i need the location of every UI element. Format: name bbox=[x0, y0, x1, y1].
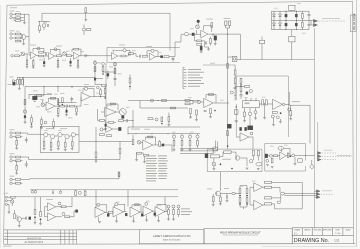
resistor R44 bbox=[109, 122, 114, 124]
ground bbox=[257, 168, 260, 170]
pot VR15 bbox=[137, 141, 141, 145]
capacitor C26 bbox=[76, 108, 78, 112]
label smear bbox=[10, 152, 15, 155]
resistor R36 bbox=[70, 105, 75, 107]
output arrows K6 bbox=[317, 190, 321, 193]
resistor R1 bbox=[16, 13, 21, 15]
wire bbox=[123, 211, 127, 213]
resistor R26 bbox=[301, 13, 303, 18]
capacitor C46 bbox=[25, 140, 28, 141]
dashed out bbox=[321, 193, 335, 195]
dark dot D8 bbox=[246, 195, 248, 197]
transistor TR8 bbox=[17, 217, 22, 222]
pot VR16 bbox=[172, 135, 175, 138]
resistor R34 bbox=[57, 100, 59, 105]
resistor R65 bbox=[272, 112, 277, 114]
wire bbox=[201, 102, 230, 103]
feedback wire bbox=[203, 26, 211, 32]
wire bbox=[12, 179, 15, 183]
connector bracket SK1 bbox=[183, 68, 185, 89]
wire vertical x95 bbox=[94, 60, 96, 85]
pot VR8 bbox=[196, 25, 200, 29]
resistor R23 bbox=[197, 43, 202, 45]
capacitor C15 bbox=[225, 21, 227, 25]
wire bbox=[103, 128, 118, 131]
resistor R76 bbox=[43, 142, 45, 147]
dark dot D5 bbox=[34, 216, 36, 218]
ground bbox=[189, 117, 192, 119]
electrolytic C6 bbox=[70, 61, 72, 63]
ground bbox=[30, 127, 33, 129]
resistor R51 bbox=[173, 140, 175, 145]
pot VR47 bbox=[197, 100, 200, 103]
ground bbox=[57, 116, 60, 118]
resistor R113 bbox=[104, 89, 106, 94]
wire bbox=[95, 84, 101, 86]
electrolytic C8 bbox=[161, 56, 163, 58]
capacitor C58 bbox=[204, 111, 207, 112]
right paper edge bbox=[355, 0, 357, 247]
ground bbox=[173, 150, 176, 152]
transistor TR6 bbox=[65, 135, 69, 139]
op-amp A16 bbox=[113, 207, 124, 217]
arrow K4 bbox=[318, 155, 322, 158]
resistor R69 bbox=[271, 158, 273, 163]
terminal N bbox=[5, 200, 7, 202]
op-amp A19 bbox=[155, 207, 165, 217]
smoothing cap C20 bbox=[295, 23, 297, 26]
svg-text:8.66: 8.66 bbox=[294, 234, 298, 236]
feedback wire bbox=[49, 98, 59, 106]
top rail bbox=[272, 10, 310, 12]
resistor R5 bbox=[16, 37, 21, 39]
wire bus x318 bbox=[317, 122, 319, 152]
resistor R12 bbox=[67, 55, 72, 57]
transformer primary box T1 top bbox=[289, 5, 295, 10]
resistor R112 bbox=[53, 122, 55, 127]
resistor R31 bbox=[24, 100, 26, 105]
resistor R67 bbox=[273, 155, 277, 157]
resistor R93 bbox=[65, 216, 70, 218]
label smears bbox=[33, 90, 38, 93]
resistor R40 bbox=[114, 69, 116, 74]
wire bbox=[195, 36, 205, 47]
capacitor C47 bbox=[16, 165, 18, 170]
jack J9 bbox=[10, 136, 12, 138]
jack J13 bbox=[10, 182, 12, 184]
driver IC block IC1 bbox=[242, 101, 259, 108]
label smear bbox=[222, 158, 231, 161]
dark dot D10 bbox=[246, 203, 248, 205]
ground bbox=[24, 122, 27, 124]
ground bbox=[272, 125, 275, 127]
pot VR40 bbox=[177, 205, 180, 208]
wire bbox=[156, 56, 161, 58]
wire vertical x115 bbox=[114, 62, 116, 86]
capacitor C9 bbox=[172, 59, 175, 60]
resistor R27 bbox=[301, 22, 303, 27]
transistor TR9 bbox=[216, 191, 221, 196]
resistor R110 bbox=[31, 118, 33, 123]
wire bbox=[21, 133, 41, 137]
right border inner bbox=[352, 1, 355, 244]
wire out bbox=[295, 154, 315, 156]
resistor R94 bbox=[108, 211, 113, 213]
resistor R66 bbox=[290, 111, 292, 116]
ground bbox=[246, 168, 249, 170]
case label box (vertical, right edge) bbox=[350, 13, 356, 31]
ground bbox=[254, 118, 257, 120]
resistor R53 bbox=[189, 140, 191, 145]
jack J2 bbox=[10, 17, 12, 19]
wire bbox=[101, 111, 120, 113]
power op-amp A20 bbox=[254, 183, 263, 192]
capacitor C62 bbox=[70, 99, 73, 100]
pad P5 bbox=[256, 162, 262, 166]
label smear bbox=[322, 189, 332, 192]
ground bbox=[104, 129, 107, 131]
bottom-left paper mark bbox=[3, 246, 12, 247]
resistor R119 bbox=[102, 67, 104, 72]
wire bbox=[21, 179, 30, 183]
enclosure bbox=[128, 127, 200, 135]
resistor R117 bbox=[161, 117, 163, 122]
label smear bbox=[224, 17, 231, 20]
wire bbox=[7, 197, 10, 212]
op-amp A18 bbox=[143, 206, 153, 216]
resistor R126 bbox=[100, 134, 105, 136]
resistor R106 bbox=[265, 186, 272, 188]
pot VR30 bbox=[212, 162, 216, 166]
wire bbox=[315, 191, 317, 197]
junction bbox=[132, 120, 133, 121]
wire bbox=[83, 25, 85, 36]
capacitor C4 bbox=[26, 60, 28, 65]
pot VR44 bbox=[151, 99, 154, 102]
feedback top wire bbox=[29, 94, 52, 99]
resistor R130 bbox=[62, 98, 64, 103]
resistor R17 bbox=[121, 55, 126, 57]
dark dot bbox=[62, 104, 64, 106]
feedback preset VR11 bbox=[84, 87, 87, 90]
pot VR33 bbox=[58, 202, 61, 205]
wire bbox=[66, 197, 76, 217]
junction C36 bbox=[240, 84, 241, 85]
wire bbox=[194, 30, 200, 34]
ground bbox=[39, 224, 42, 226]
capacitor C39 bbox=[235, 121, 238, 122]
jack J12 bbox=[10, 178, 12, 180]
regulator op-amp A14 bbox=[48, 213, 56, 221]
junction bbox=[235, 95, 236, 96]
resistor R90 bbox=[34, 210, 36, 215]
wire bus x315 bbox=[314, 28, 316, 228]
label smears bbox=[97, 62, 101, 65]
ground bbox=[207, 49, 210, 51]
corner note smear bbox=[10, 6, 17, 9]
capacitor C24 bbox=[66, 105, 67, 108]
pot VR10 bbox=[41, 103, 45, 107]
resistor R15 bbox=[57, 60, 59, 65]
resistor R83 bbox=[119, 148, 121, 153]
ground bbox=[200, 52, 203, 54]
jack J10 bbox=[10, 156, 12, 158]
label smear bbox=[46, 198, 53, 201]
resistor R98 bbox=[178, 210, 180, 215]
rectifier D3 bbox=[279, 14, 282, 17]
capacitor C48 bbox=[25, 164, 28, 165]
Laney cell bbox=[140, 230, 205, 244]
svg-text:LANEY AMPLIFICATION LTD: LANEY AMPLIFICATION LTD bbox=[153, 234, 191, 238]
bus wire 2 bbox=[180, 142, 218, 151]
earth ground bbox=[8, 212, 11, 214]
wire bbox=[37, 52, 49, 56]
label smears bbox=[206, 18, 213, 21]
feedback wire bbox=[115, 204, 125, 212]
electrolytic C51 bbox=[29, 217, 31, 220]
resistor R128 bbox=[95, 152, 97, 158]
resistor R18 bbox=[129, 53, 134, 55]
resistor R7 bbox=[39, 26, 41, 31]
resistor R81 bbox=[16, 156, 21, 158]
electrolytic C42 bbox=[265, 154, 268, 158]
label smear bbox=[324, 149, 333, 152]
transistor TR1 bbox=[21, 35, 26, 40]
dark blob T2 bbox=[33, 96, 38, 99]
resistor R57 bbox=[245, 86, 250, 88]
jack J6 bbox=[12, 80, 14, 82]
jack J4 bbox=[10, 37, 12, 39]
output pad bbox=[282, 103, 284, 105]
resistor R77 bbox=[50, 143, 52, 148]
transformer secondary box T1 bottom bbox=[289, 36, 295, 42]
ground bbox=[214, 44, 217, 46]
resistor R91 bbox=[40, 212, 42, 217]
dashed case wire bbox=[318, 20, 345, 22]
op-amp A12 bbox=[280, 152, 286, 160]
resistor R21 bbox=[211, 23, 213, 28]
resistor R96 bbox=[168, 210, 170, 215]
feedback wire bbox=[206, 95, 216, 104]
label smears bbox=[119, 44, 125, 47]
dark dot bbox=[161, 123, 163, 125]
wire bbox=[169, 35, 181, 57]
capacitor C22 bbox=[308, 25, 311, 26]
op-amp A22 bbox=[204, 98, 213, 107]
resistor R127 bbox=[107, 135, 112, 137]
wire bbox=[107, 55, 121, 57]
pot VR24 bbox=[271, 115, 274, 118]
feedback wire bbox=[97, 205, 107, 213]
op-amp A10 bbox=[143, 140, 153, 150]
pot VR22 bbox=[248, 112, 251, 115]
wire bbox=[190, 100, 197, 104]
capacitor C2 bbox=[46, 53, 47, 56]
resistor R59 bbox=[240, 87, 242, 92]
ground bbox=[95, 161, 98, 163]
wire bbox=[209, 37, 211, 46]
resistor R68 bbox=[287, 153, 289, 158]
resistor R79 bbox=[64, 143, 66, 148]
resistor R64 bbox=[265, 100, 267, 105]
resistor R102 bbox=[239, 197, 241, 202]
dark cap C60 bbox=[240, 127, 242, 130]
label smear OUTPUT bbox=[292, 100, 300, 103]
resistor R58 bbox=[240, 78, 242, 83]
resistor R56 bbox=[234, 78, 236, 83]
ground bbox=[71, 148, 74, 150]
regulator op-amp A13 bbox=[48, 203, 56, 211]
pot VR39 bbox=[172, 205, 175, 208]
resistor R103 bbox=[246, 189, 248, 194]
pad P8 bbox=[277, 201, 280, 204]
ground bbox=[15, 173, 18, 175]
ground bbox=[209, 117, 212, 119]
resistor R86 bbox=[118, 172, 120, 177]
resistor R62 bbox=[227, 131, 229, 136]
ground bbox=[84, 20, 87, 22]
electrolytic C13 bbox=[200, 46, 202, 50]
ground bbox=[26, 67, 29, 69]
label smear bbox=[210, 62, 215, 65]
preset VR36 bbox=[115, 203, 118, 206]
resistor R41 bbox=[101, 85, 106, 87]
resistor R52 bbox=[181, 140, 183, 145]
ground bbox=[18, 88, 21, 90]
wire bbox=[55, 54, 74, 56]
wire bbox=[126, 54, 139, 57]
ground bbox=[266, 165, 269, 167]
wire bbox=[245, 114, 256, 121]
wire vertical x96 bbox=[95, 127, 97, 152]
wire bbox=[181, 33, 192, 35]
feedback wire bbox=[147, 51, 158, 57]
wire bbox=[208, 34, 227, 36]
wire drop bbox=[24, 77, 26, 122]
electrolytic C55 bbox=[141, 214, 143, 217]
terminal L bbox=[5, 196, 7, 198]
wire bbox=[12, 34, 15, 38]
supply rail upper bbox=[30, 189, 178, 191]
spare cell bbox=[77, 229, 140, 231]
dark blob C40 bbox=[227, 124, 231, 128]
feedback wire bbox=[278, 148, 290, 156]
ground bbox=[64, 149, 67, 151]
resistor R8 bbox=[15, 55, 20, 57]
resistor R32 bbox=[37, 95, 42, 97]
ground bbox=[75, 114, 78, 116]
pad P4 bbox=[212, 147, 218, 151]
electrolytic C54 bbox=[125, 213, 127, 216]
pot VR19 bbox=[196, 135, 199, 138]
svg-text:CHECKED: CHECKED bbox=[313, 230, 322, 232]
link wire bbox=[58, 102, 77, 104]
electrolytic C27 bbox=[94, 78, 96, 80]
wire bbox=[220, 152, 236, 156]
electrolytic C25 bbox=[66, 110, 68, 112]
svg-text:ALTERATIONS: ALTERATIONS bbox=[25, 241, 44, 244]
resistor R120 bbox=[185, 99, 190, 101]
wire bbox=[12, 14, 15, 18]
pot VR43 bbox=[97, 86, 100, 89]
jack J11 bbox=[10, 160, 12, 162]
wire bbox=[26, 37, 29, 56]
enclosure box bbox=[236, 76, 288, 137]
resistor R80 bbox=[71, 142, 73, 147]
decoupling cap branch bbox=[85, 8, 87, 13]
svg-text:MADE IN ENGLAND: MADE IN ENGLAND bbox=[163, 239, 181, 242]
arrow K5 bbox=[318, 158, 322, 161]
head pad P2 bbox=[278, 146, 284, 150]
ground bbox=[18, 226, 21, 228]
resistor R118 bbox=[168, 117, 170, 122]
title cells row bbox=[77, 229, 293, 244]
ground bbox=[226, 201, 229, 203]
feedback wire bbox=[132, 205, 141, 212]
top border bbox=[7, 1, 353, 5]
junction dots on rail bbox=[136, 133, 137, 134]
centre rail bbox=[272, 19, 314, 21]
wire bbox=[79, 140, 132, 142]
op-amp A24 bbox=[240, 133, 249, 141]
pot VR29 bbox=[250, 160, 253, 163]
resistor R123 bbox=[190, 109, 192, 114]
wire drop x96 bbox=[95, 190, 97, 208]
label smear bbox=[322, 17, 340, 20]
resistor R9 bbox=[39, 51, 44, 53]
dark dot D7 bbox=[239, 195, 241, 197]
wire bbox=[213, 194, 232, 205]
ground bbox=[43, 148, 46, 150]
jack J5 bbox=[11, 55, 13, 57]
electrolytic C35 bbox=[246, 92, 248, 94]
op-amp A7 bbox=[46, 102, 55, 110]
preset VR35 bbox=[97, 203, 100, 206]
output arrow K1 bbox=[314, 19, 318, 22]
rectifier D2 bbox=[273, 23, 276, 26]
resistor R101 bbox=[239, 189, 241, 194]
op-amp A15 bbox=[95, 207, 106, 217]
contents smear bbox=[131, 128, 140, 131]
resistor R87 bbox=[75, 191, 77, 196]
capacitor C63 bbox=[52, 192, 53, 195]
wire bbox=[226, 25, 230, 34]
svg-text:DRAWING No.: DRAWING No. bbox=[294, 238, 329, 244]
junction bbox=[43, 86, 44, 87]
pot VR42 bbox=[44, 121, 47, 124]
transistor TR4 bbox=[51, 135, 55, 139]
ground bbox=[289, 119, 292, 121]
resistor R6 bbox=[16, 40, 21, 42]
long rail bbox=[29, 154, 120, 160]
resistor R20 bbox=[164, 56, 169, 58]
fuse FS2 bbox=[11, 196, 16, 198]
resistor R74 bbox=[16, 132, 21, 134]
rail wire y108 bbox=[140, 101, 188, 109]
electrolytic C10 bbox=[192, 33, 194, 36]
capacitor C1 bbox=[48, 24, 49, 27]
resistor R25 bbox=[227, 64, 229, 69]
wire bbox=[34, 96, 44, 103]
alterations table bbox=[4, 230, 77, 244]
pot VR45 bbox=[155, 118, 158, 121]
op-amp A2 bbox=[49, 53, 55, 60]
resistor R28 bbox=[17, 79, 19, 84]
svg-text:7.7.66: 7.7.66 bbox=[335, 233, 342, 235]
pot VR32 bbox=[78, 191, 81, 194]
ground bbox=[40, 128, 43, 130]
resistor R100 bbox=[220, 197, 222, 202]
